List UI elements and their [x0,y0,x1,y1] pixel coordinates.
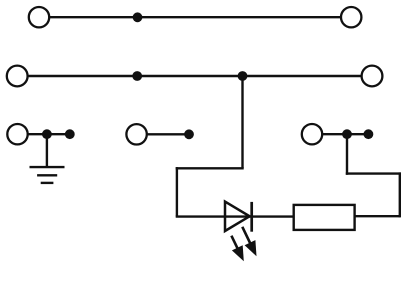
junction (top row) [133,12,143,22]
terminal X2.1 (second row left circle) [7,66,28,87]
wire (horizontal to left corner) [176,167,244,169]
wire (ground drop) [46,134,48,167]
resistor R1 [294,205,355,230]
wire (third row left stub) [28,133,70,135]
junction (LED return tap) [342,129,352,139]
wire (return drop to third row) [346,134,348,175]
LED D1 emission arrow 1 [231,236,243,262]
junction node A (second row, LED branch tap) [238,71,248,81]
terminal X3.2 (third row middle circle) [126,124,146,144]
wire (LED row horizontal) [176,215,294,217]
LED D1 cathode bar [250,202,253,232]
LED D1 emission arrow 2 [242,227,256,256]
junction (third row right stub end) [364,129,374,139]
terminal X3.1 (third row left circle) [7,124,27,144]
wire (left vertical drop to LED row) [176,167,178,216]
wire (second row bus) [28,75,362,77]
terminal X2.2 (second row right circle) [362,66,383,87]
wire (third row right stub) [322,133,368,135]
wire (third row middle stub) [147,133,189,135]
junction (ground tap) [42,129,52,139]
terminal X3.3 (third row right circle) [302,124,322,144]
terminal X1.2 (top row right circle) [341,7,361,27]
wire (resistor to right corner) [354,215,400,217]
junction (third row middle stub end) [184,129,194,139]
wire (top row bus) [49,16,341,18]
wire (right vertical rise) [399,172,401,217]
wire (right horizontal return) [346,172,401,174]
junction (second row left) [132,71,142,81]
ground [30,167,65,183]
terminal X1.1 (top row left circle) [29,7,49,27]
LED D1 (diode triangle) [225,202,250,231]
junction (third row left stub end) [65,129,75,139]
wire (node A vertical drop) [241,76,243,168]
